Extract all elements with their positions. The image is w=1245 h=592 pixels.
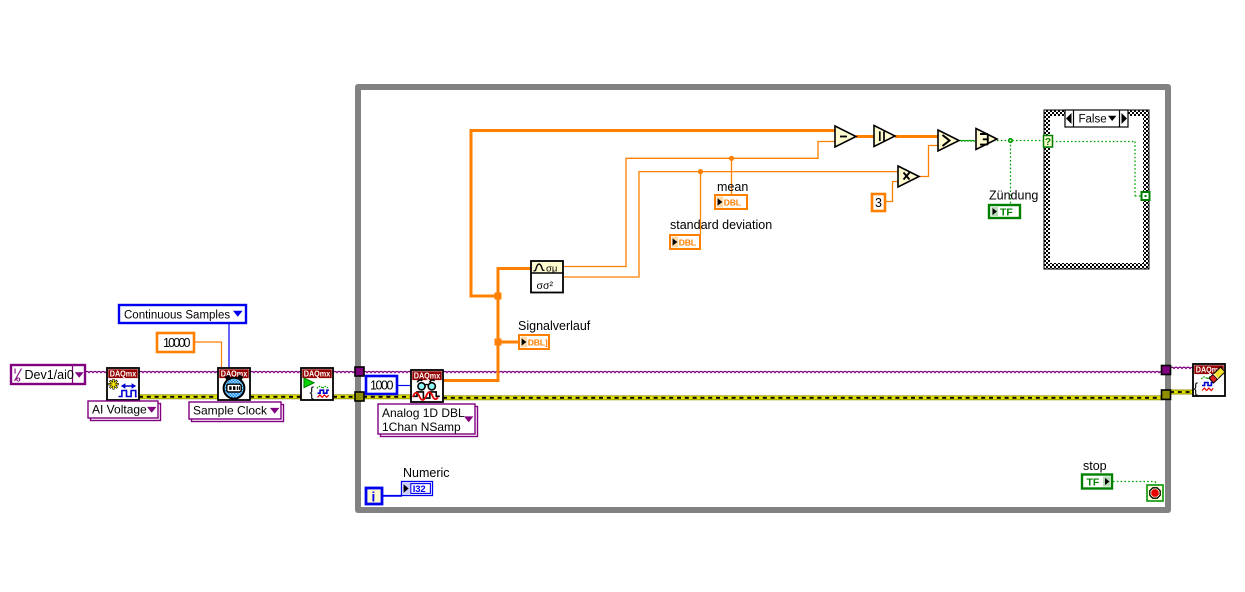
absolute value node bbox=[874, 126, 895, 147]
svg-text:TF: TF bbox=[1087, 477, 1100, 489]
DAQmx Create Virtual Channel node bbox=[107, 368, 139, 400]
wire: iteration terminal to I32 indicator bbox=[382, 495, 402, 497]
svg-text:Dev1/ai0: Dev1/ai0 bbox=[25, 368, 74, 382]
svg-text:Signalverlauf: Signalverlauf bbox=[518, 319, 591, 333]
ring constant Analog 1D DBL 1Chan NSamp bbox=[378, 404, 478, 437]
wire: DAQmx task (tunnel to Read) bbox=[363, 371, 411, 372]
wire: boolean branch to Zuendung bbox=[1010, 141, 1012, 204]
loop condition terminal (stop sign) bbox=[1147, 485, 1163, 501]
greater-than node bbox=[938, 130, 959, 151]
wire: 1000 to Read node bbox=[397, 385, 411, 387]
wire: DAQmx task (Dev1/ai0 to Create Channel) bbox=[85, 371, 107, 372]
junction: std dev wire bbox=[698, 169, 703, 174]
svg-text:{: { bbox=[310, 385, 315, 400]
svg-text:1Chan NSamp: 1Chan NSamp bbox=[382, 420, 461, 434]
junction: boolean wire bbox=[1008, 138, 1013, 143]
iteration terminal i bbox=[366, 488, 382, 505]
wire: multiply output to greater node bbox=[919, 146, 938, 177]
or-array-elements node bbox=[976, 129, 997, 150]
wire: standard deviation output bbox=[563, 172, 898, 277]
control stop boolean TF bbox=[1082, 475, 1112, 489]
wire: abs output bbox=[895, 135, 938, 138]
wire: boolean array greater to or-array-elements bbox=[959, 139, 976, 142]
wire: error cluster (Start to loop tunnel) bbox=[333, 395, 356, 399]
case structure border bbox=[1044, 110, 1149, 269]
DAQmx Timing node bbox=[218, 368, 250, 400]
while loop border bbox=[355, 84, 1171, 513]
subtract node bbox=[835, 126, 856, 147]
DAQmx Read node bbox=[411, 370, 443, 402]
svg-text:False: False bbox=[1079, 114, 1107, 126]
svg-text:DAQmx: DAQmx bbox=[304, 369, 331, 379]
numeric constant 3 bbox=[872, 194, 885, 211]
svg-text:DAQmx: DAQmx bbox=[414, 371, 441, 381]
wire: sample mode enum to Timing node bbox=[228, 323, 230, 368]
svg-text:?: ? bbox=[1045, 136, 1051, 148]
junction: array wire upper bbox=[495, 293, 502, 300]
wire: case inner boolean to tunnel bbox=[1052, 141, 1135, 143]
svg-text:DBL]: DBL] bbox=[528, 337, 548, 347]
svg-text:AI Voltage: AI Voltage bbox=[92, 403, 147, 417]
svg-text:3: 3 bbox=[875, 196, 882, 210]
wire: DAQmx task (Timing to Start) bbox=[250, 371, 301, 372]
svg-text:Analog 1D DBL: Analog 1D DBL bbox=[382, 406, 465, 420]
junction: mean wire bbox=[729, 156, 734, 161]
wire: subtract output bbox=[856, 135, 874, 138]
wire: error cluster (tunnel to Read) bbox=[363, 395, 411, 399]
indicator Numeric I32 bbox=[402, 482, 433, 496]
junction: array wire lower bbox=[495, 339, 502, 346]
tunnel: error wire right bbox=[1162, 390, 1171, 399]
svg-text:DBL: DBL bbox=[724, 197, 741, 207]
wire: error cluster (right tunnel to Clear Task) bbox=[1170, 390, 1193, 394]
DAQmx Start Task node bbox=[301, 368, 333, 400]
physical channel control Dev1/ai0 bbox=[11, 365, 85, 384]
wire: mean output bbox=[563, 142, 835, 267]
statistics node (std deviation and variance) bbox=[531, 261, 563, 293]
wire: error cluster (Timing to Start) bbox=[250, 395, 301, 399]
wire: mean branch to indicator bbox=[731, 158, 733, 195]
wire: DAQmx task (Create Channel to Timing) bbox=[139, 371, 218, 372]
tunnel: task wire right bbox=[1162, 366, 1171, 375]
numeric constant 10000 bbox=[157, 333, 194, 352]
indicator Signalverlauf DBL array bbox=[519, 335, 549, 349]
wire: boolean result to case selector bbox=[997, 140, 1044, 142]
indicator mean DBL bbox=[715, 195, 747, 209]
svg-text:1000: 1000 bbox=[370, 379, 394, 393]
wire: constant 3 to multiply bbox=[885, 182, 898, 202]
svg-text:Zündung: Zündung bbox=[989, 189, 1038, 203]
wire: error cluster (Create Channel to Timing) bbox=[139, 395, 218, 399]
tunnel: task wire left bbox=[355, 367, 364, 376]
svg-text:{: { bbox=[1194, 381, 1199, 396]
indicator standard deviation DBL bbox=[670, 235, 700, 249]
indicator Zuendung boolean TF bbox=[989, 205, 1020, 219]
wire: DAQmx task (right tunnel to Clear Task) bbox=[1170, 367, 1193, 368]
tunnel: case output bbox=[1141, 191, 1151, 201]
wire: array branch up-left to subtract bbox=[471, 131, 835, 297]
wire: std dev branch to indicator bbox=[700, 172, 702, 235]
multiply node bbox=[898, 166, 919, 187]
case selector label "False" bbox=[1065, 110, 1128, 127]
ring constant AI Voltage bbox=[88, 401, 161, 421]
svg-text:Continuous Samples: Continuous Samples bbox=[124, 310, 230, 322]
svg-text:o: o bbox=[16, 375, 21, 384]
wire: DAQmx task (Read to right tunnel) bbox=[443, 371, 1162, 372]
svg-text:TF: TF bbox=[1000, 207, 1013, 219]
DAQmx Clear Task node bbox=[1193, 364, 1225, 396]
svg-text:σσ²: σσ² bbox=[537, 280, 554, 292]
svg-text:Numeric: Numeric bbox=[403, 466, 450, 480]
wire: 10000 rate to Timing node bbox=[194, 342, 222, 368]
wire: data array from Read node bbox=[443, 269, 531, 381]
svg-text:standard deviation: standard deviation bbox=[670, 218, 772, 232]
svg-text:DAQmx: DAQmx bbox=[110, 369, 137, 379]
svg-text:σμ: σμ bbox=[546, 264, 557, 275]
svg-text:I32: I32 bbox=[413, 484, 426, 495]
wire: stop button to loop condition bbox=[1113, 481, 1156, 483]
svg-text:Sample Clock: Sample Clock bbox=[193, 404, 268, 418]
svg-text:i: i bbox=[372, 490, 376, 505]
svg-text:stop: stop bbox=[1083, 459, 1107, 473]
wire: DAQmx task (Start to loop tunnel) bbox=[333, 371, 356, 372]
tunnel: case selector ? bbox=[1044, 136, 1053, 149]
svg-text:DBL: DBL bbox=[679, 237, 696, 247]
enum constant Continuous Samples bbox=[119, 305, 246, 323]
wire: error cluster (Read to right tunnel) bbox=[443, 396, 1163, 400]
numeric constant 1000 bbox=[366, 376, 397, 394]
svg-text:10000: 10000 bbox=[163, 336, 191, 350]
svg-text:mean: mean bbox=[717, 180, 748, 194]
ring constant Sample Clock bbox=[189, 402, 284, 422]
wire: array branch to Signalverlauf bbox=[498, 341, 519, 344]
tunnel: error wire left bbox=[355, 392, 364, 401]
